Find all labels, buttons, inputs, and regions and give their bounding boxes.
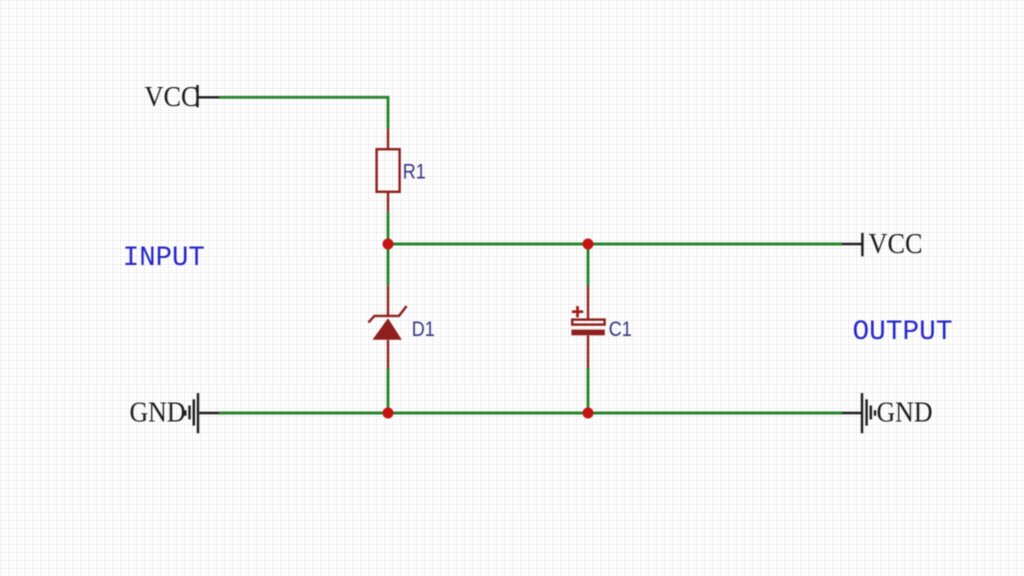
svg-text:R1: R1 (403, 160, 426, 183)
wire (387, 212, 390, 286)
svg-text:GND: GND (130, 397, 186, 428)
svg-text:GND: GND (877, 397, 933, 428)
wire (219, 412, 842, 415)
plus sign of C1 (572, 306, 583, 317)
zener diode D1 (368, 286, 406, 369)
capacitor C1 (polarized) (572, 286, 604, 368)
wire (219, 97, 388, 128)
ground symbol (right) (842, 393, 875, 433)
wire (587, 244, 590, 286)
wire (587, 368, 590, 413)
wire (388, 243, 842, 246)
junction node (D1 bottom) (383, 408, 394, 419)
svg-text:D1: D1 (412, 318, 435, 341)
junction node (C1 top) (583, 239, 594, 250)
junction node (C1 bottom) (583, 408, 594, 419)
svg-text:C1: C1 (609, 318, 632, 341)
svg-text:VCC: VCC (145, 82, 199, 113)
svg-text:OUTPUT: OUTPUT (853, 317, 953, 348)
wire (387, 369, 390, 414)
svg-text:VCC: VCC (869, 229, 923, 260)
svg-text:INPUT: INPUT (123, 243, 205, 274)
power flag VCC (right) (842, 233, 862, 256)
power flag VCC (top-left) (198, 85, 220, 107)
junction node (R1/D1 top) (383, 239, 394, 250)
resistor R1 (377, 129, 400, 212)
ground symbol (left) (185, 393, 219, 433)
